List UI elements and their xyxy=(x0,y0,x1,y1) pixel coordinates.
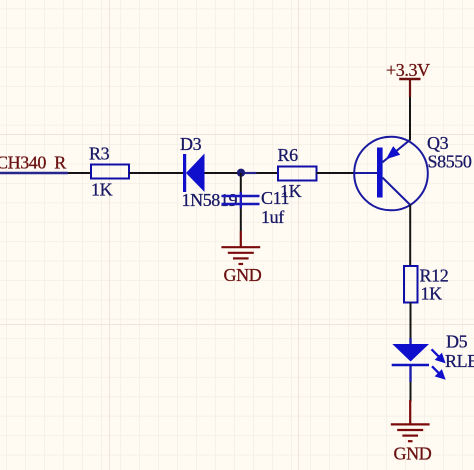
svg-text:Q3: Q3 xyxy=(427,133,449,153)
capacitor C11 xyxy=(222,192,260,209)
svg-text:D3: D3 xyxy=(180,134,202,154)
wire xyxy=(240,173,242,192)
ground GND (bottom) xyxy=(391,400,430,441)
wire xyxy=(410,382,412,402)
wire xyxy=(240,209,242,232)
svg-text:S8550: S8550 xyxy=(428,152,472,172)
wire xyxy=(241,172,257,174)
LED D5 xyxy=(392,338,444,382)
svg-text:RLED: RLED xyxy=(445,351,474,371)
wire xyxy=(205,172,242,174)
svg-text:GND: GND xyxy=(394,443,432,463)
transistor Q3 xyxy=(354,137,428,211)
wire xyxy=(409,205,411,267)
wire xyxy=(317,172,355,174)
svg-text:D5: D5 xyxy=(446,332,468,352)
svg-text:R6: R6 xyxy=(278,145,299,165)
ground GND (middle) xyxy=(221,231,260,264)
resistor R12 xyxy=(404,266,418,303)
svg-text:1K: 1K xyxy=(421,284,443,304)
power port +3.3V xyxy=(386,60,430,97)
wire xyxy=(410,303,412,339)
resistor R3 xyxy=(91,165,129,179)
svg-text:1K: 1K xyxy=(91,180,113,200)
svg-text:GND: GND xyxy=(224,265,262,285)
svg-text:CH340 R: CH340 R xyxy=(0,153,66,173)
junction node xyxy=(237,169,245,177)
bus wire CH340_R xyxy=(0,172,68,175)
svg-text:1uf: 1uf xyxy=(261,207,284,227)
svg-text:1K: 1K xyxy=(280,181,302,201)
svg-text:+3.3V: +3.3V xyxy=(386,60,430,80)
wire xyxy=(129,172,183,174)
wire xyxy=(257,172,279,174)
svg-text:1N5819: 1N5819 xyxy=(182,190,238,210)
resistor R6 xyxy=(278,167,317,181)
svg-text:R3: R3 xyxy=(89,144,110,164)
svg-text:R12: R12 xyxy=(420,265,449,285)
diode D3 xyxy=(183,154,205,193)
wire xyxy=(409,97,411,141)
wire xyxy=(68,172,91,174)
